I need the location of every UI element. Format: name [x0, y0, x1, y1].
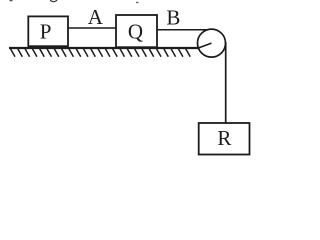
svg-text:P: P	[40, 20, 52, 44]
ground / table surface line	[9, 47, 199, 49]
ground hatching	[11, 49, 191, 57]
string B wire	[157, 29, 208, 31]
block R	[199, 123, 250, 155]
svg-text:R: R	[217, 126, 231, 150]
cropped text remnant top-left	[10, 0, 13, 1]
svg-text:Q: Q	[128, 20, 143, 44]
block Q	[116, 15, 157, 47]
rope to R wire	[225, 42, 227, 123]
pulley axle support line	[197, 43, 212, 48]
string A wire	[68, 27, 116, 29]
block P	[28, 16, 68, 46]
cropped text remnant small dot	[136, 2, 138, 3]
svg-text:B: B	[166, 6, 180, 30]
cropped text remnant (descender of g) top-middle	[51, 0, 58, 2]
pulley	[198, 29, 226, 57]
svg-text:A: A	[88, 5, 104, 29]
